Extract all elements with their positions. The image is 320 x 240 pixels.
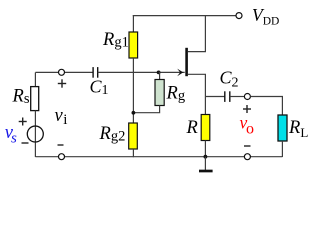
wire top rail VDD [133,15,236,17]
vs plus sign [19,118,27,126]
wire bottom rail [35,156,282,158]
svg-text:Rg1: Rg1 [102,30,129,51]
wire RL bottom to rail [281,141,283,157]
wire drain lead [188,16,206,52]
wire C1 to gate [98,71,185,73]
wire output terminal to RL [250,97,282,116]
wire C2 to output terminal [230,96,245,98]
svg-text:vi: vi [55,106,68,128]
svg-text:C1: C1 [90,77,109,99]
wire source node to C2 [205,96,224,98]
svg-text:Rs: Rs [12,87,30,108]
resistor Rg1 [129,32,138,58]
node input bottom terminal [59,154,65,160]
vi minus sign [58,144,64,146]
node input top terminal [59,69,65,75]
node output top terminal [244,94,250,100]
node ground junction dot [204,155,208,159]
resistor Rs [31,87,39,111]
resistor R [201,115,210,141]
wire source node down to R [204,97,206,115]
node output bottom terminal [244,154,250,160]
wire Rg1 top drop [132,15,134,32]
vo plus sign [243,105,251,113]
wire Rg bottom link to divider [133,106,160,113]
source vs circle [27,126,43,142]
svg-text:R: R [186,118,198,138]
svg-text:C2: C2 [220,67,239,90]
transistor Q1 gate arrow [177,69,183,77]
transistor Q1 channel bar [185,48,188,76]
node VDD terminal [236,13,242,19]
svg-text:vo: vo [240,112,254,137]
wire gate node to Rg top [159,72,160,79]
svg-text:RL: RL [288,118,308,140]
svg-text:vs: vs [5,123,17,146]
capacitor C2 [225,91,230,102]
resistor RL [278,115,287,141]
wire R bottom to rail [204,141,206,158]
wire main input line vs to C1 [35,71,93,73]
svg-text:Rg2: Rg2 [99,124,126,145]
ground [204,157,206,170]
wire Rg2 bottom drop [132,149,134,157]
wire Rg1 to Rg2 vertical [132,58,134,123]
wire source lead [188,74,206,96]
capacitor C1 [93,67,98,78]
svg-text:VDD: VDD [252,5,279,27]
vi plus sign [58,79,66,87]
vs minus sign [22,142,29,144]
svg-text:Rg: Rg [166,83,186,104]
wire Rs to bottom rail through source [34,111,36,158]
resistor Rg2 [129,123,138,149]
resistor Rg [155,80,164,106]
node divider junction dot [132,111,136,115]
node gate junction dot [157,71,161,75]
vo minus sign [244,145,251,147]
wire input branch down to Rs [34,72,36,87]
